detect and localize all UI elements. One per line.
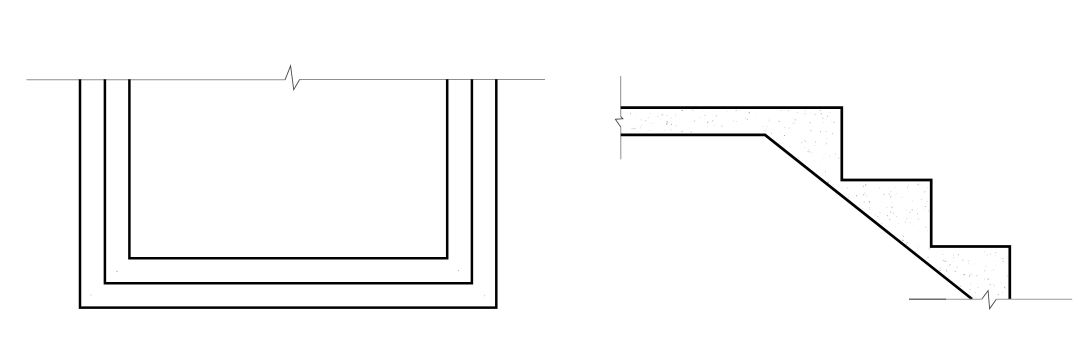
break symbol on grade line [285,66,300,90]
floor line light segment before break [946,298,982,300]
inner tank wall U [129,79,447,258]
landing top surface and stair step profile [621,108,1010,299]
cut line lower part [620,127,622,159]
concrete stipple texture of stair mass [630,110,1008,295]
outer tank wall U [80,79,496,307]
floor line dark segment [909,298,946,300]
break symbol on cut line [615,117,623,128]
cut line at left edge of stair landing [620,76,622,117]
floor line right segment [996,298,1072,300]
sparse stipple dots in tank walls [90,270,485,296]
break symbol on floor line [982,291,996,309]
grade line right segment (tank figure) [300,79,545,81]
middle tank wall U [105,79,472,283]
landing soffit and stair soffit diagonal [621,135,972,299]
grade line left segment (tank figure) [26,79,285,81]
